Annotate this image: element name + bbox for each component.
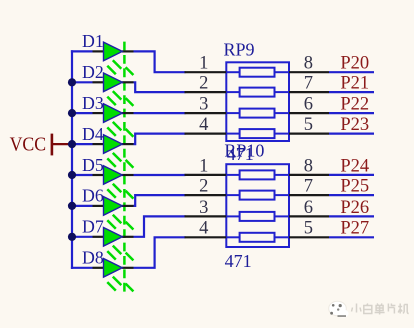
RP9 internal lead left (226, 133, 239, 135)
resistor element RP9-2 (240, 88, 275, 97)
watermark text xiaobai danpianji (352, 304, 362, 313)
svg-text:D5: D5 (82, 155, 104, 175)
RP9 internal lead right (275, 133, 290, 135)
LED D6 anode pin stub (93, 205, 105, 207)
wire anode bus vertical (71, 50, 73, 269)
wire net P25 (329, 194, 374, 196)
LED D2 emission dash a (113, 91, 122, 100)
LED D6 cathode pin stub (122, 205, 134, 207)
wire D7 to RP10 pin 3 (134, 216, 186, 236)
LED D7 emission dash b (107, 251, 116, 260)
RP10 pin 2 stub (185, 194, 227, 196)
wire bus to D5 (71, 174, 93, 176)
svg-text:D8: D8 (82, 248, 104, 268)
LED D6 triangle (104, 197, 123, 216)
wire D3 to RP9 pin 3 (134, 112, 186, 114)
resistor element RP10-1 (240, 170, 275, 179)
LED D4 emission dash b (107, 158, 116, 167)
svg-text:P21: P21 (340, 74, 369, 94)
wire bus to D7 (71, 236, 93, 238)
RP10 pin 5 stub (289, 236, 329, 238)
RP10 pin 8 stub (289, 174, 329, 176)
wire bus to D1 (71, 50, 93, 52)
svg-text:1: 1 (199, 156, 208, 176)
svg-text:5: 5 (304, 115, 313, 135)
LED D3 anode pin stub (93, 112, 105, 114)
LED D7 emission dash c (126, 253, 134, 261)
LED D4 cathode pin stub (122, 143, 134, 145)
wire net P27 (329, 236, 374, 238)
wire bus to D2 (71, 81, 93, 83)
LED D7 cathode pin stub (122, 236, 134, 238)
LED D6 emission dash b (107, 220, 116, 229)
LED D5 emission dash c (126, 191, 134, 199)
RP9 internal lead left (226, 112, 239, 114)
RP10 internal lead left (226, 236, 239, 238)
LED D3 emission dash c (126, 129, 134, 137)
wire D6 to RP10 pin 2 (134, 195, 186, 206)
LED D2 emission dash b (107, 97, 116, 106)
RP10 internal lead right (275, 174, 290, 176)
RP10 internal lead right (275, 194, 290, 196)
wire D4 to RP9 pin 4 (134, 134, 186, 145)
LED D1 emission dash c (126, 67, 134, 75)
RP9 pin 6 stub (289, 112, 329, 114)
wire D1 to RP9 pin 1 (134, 51, 186, 72)
LED D5 triangle (104, 166, 123, 185)
RP10 pin 3 stub (185, 215, 227, 217)
LED D1 triangle (104, 42, 123, 61)
LED cathode dashed line (123, 42, 126, 293)
wire net P24 (329, 174, 374, 176)
LED D8 emission dash b (107, 282, 116, 291)
svg-text:7: 7 (304, 177, 313, 197)
wire net P21 (329, 91, 374, 93)
svg-text:1: 1 (199, 54, 208, 74)
svg-text:P25: P25 (340, 177, 369, 197)
RP9 pin 4 stub (185, 133, 227, 135)
RP10 pin 4 stub (185, 236, 227, 238)
RP10 internal lead left (226, 194, 239, 196)
wire bus to D4 (71, 143, 93, 145)
LED D6 emission dash c (126, 222, 134, 230)
resistor element RP9-4 (240, 129, 275, 138)
svg-text:P22: P22 (340, 95, 369, 115)
VCC bar symbol (51, 134, 54, 156)
LED D7 anode pin stub (93, 236, 105, 238)
LED D1 cathode pin stub (122, 50, 134, 52)
LED D3 triangle (104, 104, 123, 123)
RP9 pin 8 stub (289, 71, 329, 73)
LED D4 anode pin stub (93, 143, 105, 145)
LED D4 emission dash a (113, 153, 122, 162)
LED D8 emission dash c (126, 284, 134, 292)
junction dot (68, 109, 76, 117)
RP9 pin 7 stub (289, 91, 329, 93)
RP9 pin 3 stub (185, 112, 227, 114)
wire net P22 (329, 112, 374, 114)
LED D6 emission dash a (113, 215, 122, 224)
wire bus to D6 (71, 205, 93, 207)
wire bus to D8 (71, 267, 93, 269)
RP9 pin 5 stub (289, 133, 329, 135)
svg-text:3: 3 (199, 95, 208, 115)
RP9 internal lead left (226, 71, 239, 73)
wire D5 to RP10 pin 1 (134, 174, 186, 176)
LED D5 emission dash b (107, 189, 116, 198)
svg-text:4: 4 (199, 115, 208, 135)
svg-text:471: 471 (225, 251, 252, 271)
RP9 internal lead right (275, 91, 290, 93)
LED D4 emission dash c (126, 160, 134, 168)
resistor pack RP9 body (226, 62, 289, 141)
svg-text:RP9: RP9 (224, 40, 255, 60)
wire D2 to RP9 pin 2 (134, 82, 186, 92)
svg-text:D6: D6 (82, 186, 104, 206)
resistor element RP9-3 (240, 109, 275, 118)
RP9 internal lead right (275, 71, 290, 73)
svg-text:8: 8 (304, 54, 313, 74)
RP9 internal lead right (275, 112, 290, 114)
svg-text:2: 2 (199, 177, 208, 197)
LED D5 cathode pin stub (122, 174, 134, 176)
RP10 pin 6 stub (289, 215, 329, 217)
LED D8 cathode pin stub (122, 267, 134, 269)
RP10 pin 7 stub (289, 194, 329, 196)
svg-text:4: 4 (199, 219, 208, 239)
resistor pack RP10 body (226, 164, 289, 247)
junction dot (68, 140, 76, 148)
resistor element RP10-3 (240, 212, 275, 221)
svg-text:8: 8 (304, 156, 313, 176)
RP9 pin 2 stub (185, 91, 227, 93)
resistor element RP10-4 (240, 233, 275, 242)
LED D1 anode pin stub (93, 50, 105, 52)
junction dot (68, 171, 76, 179)
LED D2 cathode pin stub (122, 81, 134, 83)
svg-text:D1: D1 (82, 31, 104, 51)
svg-text:5: 5 (304, 219, 313, 239)
RP9 internal lead left (226, 91, 239, 93)
RP10 internal lead right (275, 215, 290, 217)
wire VCC to bus (52, 143, 72, 145)
svg-text:P24: P24 (340, 156, 369, 176)
RP10 internal lead left (226, 215, 239, 217)
LED D2 anode pin stub (93, 81, 105, 83)
svg-text:P27: P27 (340, 219, 369, 239)
RP9 pin 1 stub (185, 71, 227, 73)
wire net P26 (329, 215, 374, 217)
svg-text:P20: P20 (340, 54, 369, 74)
RP10 internal lead right (275, 236, 290, 238)
LED D2 triangle (104, 73, 123, 92)
svg-text:P23: P23 (340, 115, 369, 135)
LED D1 emission dash b (107, 66, 116, 75)
LED D8 triangle (104, 259, 123, 278)
LED D7 emission dash a (113, 246, 122, 255)
wire bus to D3 (71, 112, 93, 114)
svg-text:D7: D7 (82, 217, 104, 237)
RP10 internal lead left (226, 174, 239, 176)
RP10 pin 1 stub (185, 174, 227, 176)
LED D1 emission dash a (113, 60, 122, 68)
LED D8 emission dash a (113, 277, 122, 286)
svg-text:D4: D4 (82, 124, 104, 144)
wire net P23 (329, 133, 374, 135)
LED D5 anode pin stub (93, 174, 105, 176)
svg-text:6: 6 (304, 95, 313, 115)
resistor element RP9-1 (240, 68, 275, 77)
LED D7 triangle (104, 228, 123, 247)
LED D3 cathode pin stub (122, 112, 134, 114)
svg-text:D3: D3 (82, 93, 104, 113)
svg-text:D2: D2 (82, 62, 104, 82)
junction dot (68, 78, 76, 86)
junction dot (68, 202, 76, 210)
svg-text:7: 7 (304, 74, 313, 94)
svg-text:2: 2 (199, 74, 208, 94)
LED D3 emission dash b (107, 127, 116, 135)
LED D3 emission dash a (113, 122, 122, 130)
junction dot (68, 233, 76, 241)
svg-text:6: 6 (304, 198, 313, 218)
wire D8 to RP10 pin 4 (134, 237, 186, 267)
svg-text:RP10: RP10 (224, 141, 264, 161)
wire net P20 (329, 71, 374, 73)
resistor element RP10-2 (240, 191, 275, 200)
LED D5 emission dash a (113, 184, 122, 193)
watermark logo (329, 301, 349, 317)
LED D2 emission dash c (126, 98, 134, 106)
LED D4 triangle (104, 135, 123, 154)
svg-text:P26: P26 (340, 198, 369, 218)
svg-text:VCC: VCC (10, 134, 47, 156)
LED D8 anode pin stub (93, 267, 105, 269)
svg-text:3: 3 (199, 198, 208, 218)
